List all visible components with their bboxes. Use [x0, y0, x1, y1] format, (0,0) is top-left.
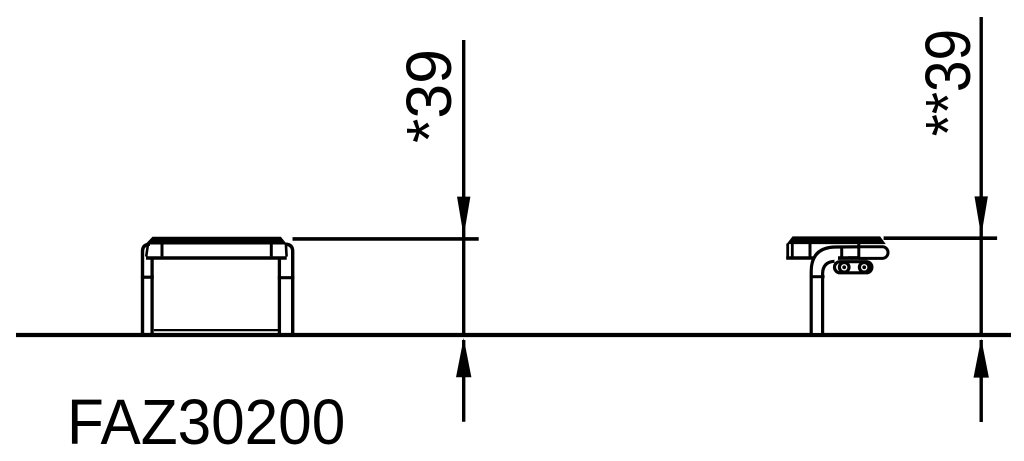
dimension line left below ground	[462, 340, 465, 422]
bench side view: tube weld joint	[810, 275, 825, 278]
bench front view: seat plank joint line right	[270, 244, 273, 257]
bench side view: bent tube leg inner edge	[823, 261, 835, 336]
extension line left (seat top)	[293, 237, 479, 241]
bench front view: lower frame rail	[154, 329, 279, 331]
bench front view: right leg outer edge	[285, 244, 292, 335]
svg-text:**39: **39	[912, 29, 984, 136]
bench side view: seat bottom edge right segment	[838, 256, 867, 259]
bench front view: right leg weld joint	[278, 276, 295, 279]
extension line right (seat top)	[884, 236, 998, 240]
bench front view: seat bottom edge	[146, 256, 287, 260]
bench side view: seat plank joint	[809, 244, 812, 259]
bench front view: right leg inner edge	[278, 259, 281, 335]
dimension line left (vertical)	[462, 40, 465, 335]
dimension line right below ground	[980, 340, 983, 422]
bench side view: seat end face edge	[791, 244, 794, 259]
dimension line right (vertical)	[980, 17, 983, 335]
bench front view: left leg weld joint	[141, 276, 154, 279]
bench side view: bent tube leg (fill)	[812, 247, 848, 333]
bench front view: seat top board (black)	[146, 237, 286, 244]
dimension arrow left down	[457, 197, 470, 237]
bench front view: seat plank joint line left	[161, 244, 164, 257]
bench side view: clamp bracket	[835, 262, 872, 273]
bench side view: seat left outer edge	[786, 244, 789, 259]
bench side view: seat top board (black)	[788, 237, 885, 244]
bench front view: left leg inner edge	[150, 259, 153, 335]
bench front view: seat left end edge	[146, 244, 148, 257]
bench side view: seat rail joint line 1	[840, 246, 843, 258]
bench side view: tube end cap	[859, 247, 888, 259]
bench side view: bolt right	[859, 263, 869, 273]
bench side view: seat bottom edge	[786, 256, 867, 259]
bench front view: seat right end edge	[285, 244, 288, 257]
ground line	[16, 333, 1011, 337]
dimension arrow left up	[456, 338, 471, 377]
bench side view: bolt left	[839, 263, 849, 273]
bench side view: bent tube leg outer edge	[811, 247, 859, 337]
svg-text:FAZ30200: FAZ30200	[67, 387, 345, 458]
dimension arrow right down	[975, 196, 988, 236]
svg-text:*39: *39	[394, 49, 465, 143]
bench side view: seat rail joint line 2	[857, 243, 860, 258]
bench front view: left leg outer edge	[143, 244, 151, 335]
dimension arrow right up	[974, 338, 989, 377]
